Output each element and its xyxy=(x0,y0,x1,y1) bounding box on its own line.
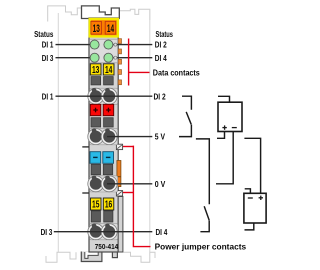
svg-text:DI 2: DI 2 xyxy=(155,40,167,50)
svg-text:5 V: 5 V xyxy=(155,132,166,142)
svg-text:Data contacts: Data contacts xyxy=(153,68,200,78)
blue - boxes xyxy=(90,152,114,164)
wire line DI1/DI2 clamp row xyxy=(56,95,153,97)
test holes xyxy=(114,43,117,46)
svg-text:14: 14 xyxy=(105,65,113,76)
power jumper blade (right edge, orange) xyxy=(117,161,121,187)
wire line 0V (right) xyxy=(107,183,152,185)
battery B2 xyxy=(244,138,266,230)
circuit: DI2 to switch S1 xyxy=(182,96,191,110)
svg-text:0 V: 0 V xyxy=(155,179,166,189)
svg-text:13: 13 xyxy=(93,23,100,35)
svg-text:Power jumper contacts: Power jumper contacts xyxy=(155,241,247,251)
red line data contacts xyxy=(129,39,150,86)
svg-text:DI 1: DI 1 xyxy=(42,91,54,101)
wire stub 5V jumper (left) xyxy=(82,146,89,148)
5V branch to switch S2 xyxy=(196,139,209,204)
svg-text:DI 3: DI 3 xyxy=(42,53,54,63)
status LED DI4 xyxy=(104,53,113,62)
jumper spring contact icon bottom xyxy=(116,191,122,196)
terminal label 15/16 (yellow) xyxy=(91,198,114,211)
module body xyxy=(89,18,118,252)
module right lower extension xyxy=(118,197,123,253)
data contact tabs (right edge) xyxy=(118,39,121,85)
wire line DI1 LED (left, through module) xyxy=(56,44,93,46)
svg-text:DI 1: DI 1 xyxy=(42,40,54,50)
wire stub 0V jumper (left) xyxy=(82,192,89,194)
red line power jumper contacts xyxy=(123,146,151,247)
red + boxes xyxy=(90,104,113,115)
wire entry squares row2 xyxy=(91,118,101,127)
battery B2 polarity xyxy=(248,196,263,200)
battery B1 polarity xyxy=(222,125,236,129)
svg-text:15: 15 xyxy=(92,200,100,211)
svg-text:Status: Status xyxy=(156,29,174,39)
module bottom feet xyxy=(81,252,102,262)
wire line 5V (right) xyxy=(107,136,152,138)
battery B1 xyxy=(216,96,242,184)
switch S2 lower stub to DI4 xyxy=(200,220,209,231)
svg-text:DI 3: DI 3 xyxy=(41,227,53,237)
clamp row DI3/DI4 xyxy=(88,224,118,240)
switch S1 lower stub to 5V xyxy=(179,125,191,137)
switch S1 blade xyxy=(186,112,191,124)
svg-text:13: 13 xyxy=(92,65,100,76)
svg-text:DI 2: DI 2 xyxy=(154,91,166,101)
neighbor module outline left (faint) xyxy=(46,6,85,262)
jumper spring contact icon top xyxy=(116,144,122,149)
status LED DI1 xyxy=(90,40,99,49)
terminal label 13/14 (yellow) xyxy=(90,64,114,76)
module top latch xyxy=(82,6,120,19)
svg-text:16: 16 xyxy=(105,200,113,211)
wire entry squares row3 xyxy=(91,164,100,174)
switch S2 blade xyxy=(204,206,209,220)
wire entry squares row4 xyxy=(91,211,100,222)
svg-text:750-414: 750-414 xyxy=(95,242,119,251)
svg-text:DI 4: DI 4 xyxy=(156,227,168,237)
status LED DI3 xyxy=(90,53,99,62)
clamp row 5V xyxy=(88,128,118,144)
terminal number plate 13/14 (orange on yellow) xyxy=(90,19,118,36)
neighbor module outline right (faint) xyxy=(120,9,156,262)
svg-text:Status: Status xyxy=(34,29,54,39)
status LED DI2 xyxy=(104,40,113,49)
clamp row DI1/DI2 xyxy=(88,88,118,104)
svg-text:14: 14 xyxy=(107,23,115,35)
svg-text:DI 4: DI 4 xyxy=(155,53,167,63)
LED panel xyxy=(90,39,118,63)
clamp row 0V xyxy=(88,176,118,192)
wire line DI3/DI4 clamp row xyxy=(54,231,153,233)
wire entry squares row1 xyxy=(91,77,101,85)
wire line DI3 LED (left, through module) xyxy=(56,57,93,59)
